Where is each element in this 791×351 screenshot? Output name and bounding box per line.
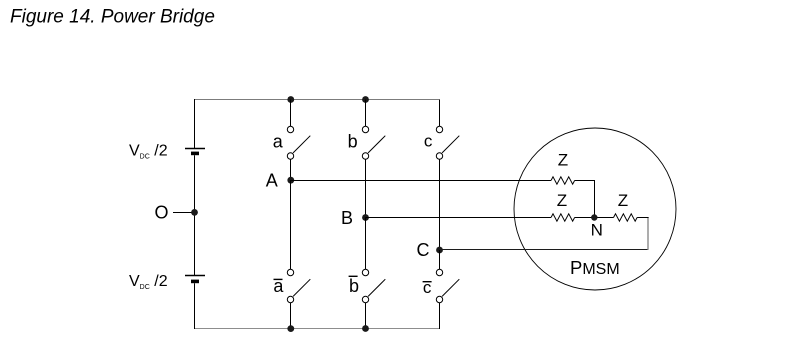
label a	[273, 131, 284, 151]
label cbar	[423, 278, 432, 297]
wire: bottom DC bus	[195, 328, 441, 330]
label Z phase B	[557, 191, 567, 210]
node B	[362, 214, 369, 221]
wire: phase C resistor to node N	[595, 217, 614, 219]
wire: phase A from node A to resistor	[291, 180, 552, 182]
wire: switch cbar to bottom bus corner	[439, 303, 441, 329]
wire: left branch upper segment	[194, 99, 196, 148]
svg-text:Z: Z	[558, 151, 568, 170]
resistor Z phase B	[551, 214, 575, 221]
switch b	[362, 126, 385, 159]
wire: left branch middle segment	[194, 155, 196, 275]
svg-text:B: B	[341, 208, 353, 228]
junction: a leg to bottom bus	[287, 325, 294, 332]
label Z phase C	[618, 191, 628, 210]
switch cbar	[436, 269, 459, 302]
junction: b leg to top bus	[362, 96, 369, 103]
motor PMSM boundary	[514, 128, 676, 290]
svg-text:VDC /2: VDC /2	[129, 273, 168, 291]
wire: switch b to node B	[365, 159, 367, 217]
label C	[417, 240, 430, 260]
wire: switch abar to bottom bus	[290, 303, 292, 329]
junction: b leg to bottom bus	[362, 325, 369, 332]
wire: phase C corner lead to resistor	[637, 217, 649, 219]
battery V1 (upper Vdc/2)	[185, 149, 205, 154]
svg-text:PMSM: PMSM	[570, 257, 620, 278]
wire: phase C from node C along bottom and up	[440, 249, 649, 251]
label Vdc/2 upper	[129, 142, 168, 160]
svg-text:VDC /2: VDC /2	[129, 142, 168, 160]
label Vdc/2 lower	[129, 273, 168, 291]
wire: a leg node A down to switch abar	[290, 180, 292, 269]
wire: b leg node B down to switch bbar	[365, 218, 367, 270]
svg-text:Z: Z	[618, 191, 628, 210]
wire: switch a to node A	[290, 159, 292, 180]
svg-text:O: O	[154, 202, 168, 222]
wire: c leg drop from top bus corner	[439, 100, 441, 127]
svg-text:Z: Z	[557, 191, 567, 210]
label Z phase A	[558, 151, 568, 170]
wire: a leg drop from top bus	[290, 100, 292, 127]
label PMSM	[570, 257, 620, 278]
label N	[591, 221, 603, 240]
svg-text:a: a	[273, 276, 284, 296]
label c	[424, 131, 433, 150]
label O	[154, 202, 168, 222]
switch c	[436, 126, 459, 159]
label B	[341, 208, 353, 228]
wire: b leg drop from top bus	[365, 100, 367, 127]
wire: phase B resistor to node N	[575, 217, 595, 219]
svg-text:c: c	[423, 278, 432, 297]
wire: switch c to node C	[439, 159, 441, 250]
label b	[348, 131, 358, 151]
switch a	[287, 126, 310, 159]
figure title	[10, 7, 215, 28]
label bbar	[349, 276, 359, 296]
wire: c leg node C down to switch cbar	[439, 250, 441, 269]
junction: a leg to top bus	[287, 96, 294, 103]
wire: phase C right vertical lead	[647, 218, 649, 250]
switch abar	[287, 269, 310, 302]
wire: top DC bus	[195, 99, 440, 101]
svg-text:Figure 14. Power Bridge: Figure 14. Power Bridge	[10, 7, 215, 28]
svg-text:A: A	[266, 171, 278, 191]
wire: left branch lower segment	[194, 283, 196, 329]
node O	[191, 209, 198, 216]
svg-text:N: N	[591, 221, 603, 240]
resistor Z phase A	[551, 177, 575, 184]
label abar	[273, 276, 284, 296]
svg-text:c: c	[424, 131, 433, 150]
node C	[436, 247, 443, 254]
wire: phase A resistor to corner and down to node N	[575, 181, 595, 218]
wire: O stub	[173, 212, 195, 214]
switch bbar	[362, 269, 385, 302]
svg-text:b: b	[349, 276, 359, 296]
battery V2 (lower Vdc/2)	[185, 276, 205, 282]
label A	[266, 171, 278, 191]
node N	[591, 214, 597, 220]
wire: phase B from node B to resistor	[366, 217, 552, 219]
svg-text:C: C	[417, 240, 430, 260]
svg-text:b: b	[348, 131, 358, 151]
svg-text:a: a	[273, 131, 284, 151]
wire: switch bbar to bottom bus	[365, 303, 367, 329]
node A	[287, 177, 294, 184]
resistor Z phase C	[614, 214, 638, 221]
